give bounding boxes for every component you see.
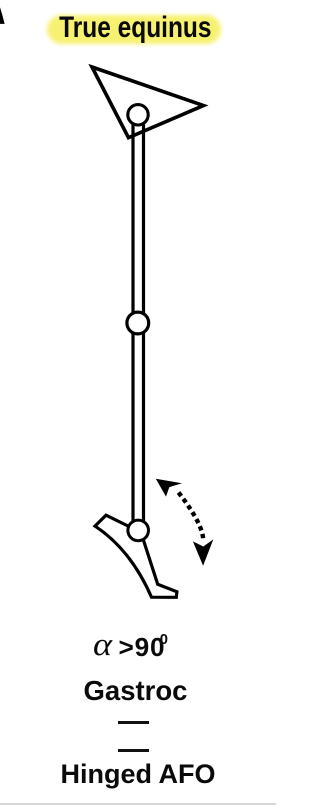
- arrowhead upper-left: [156, 479, 182, 497]
- superscript 0: [160, 633, 168, 648]
- dashed motion arc: [179, 493, 204, 541]
- label alpha: [93, 629, 112, 662]
- bottom hairline: [0, 803, 276, 805]
- arrowhead lower: [193, 539, 213, 565]
- femur bar right line: [142, 114, 145, 530]
- fraction dash 2: [118, 749, 149, 752]
- label Hinged AFO: [0, 759, 276, 790]
- foot outline: [95, 515, 177, 597]
- yellow highlight pill: [47, 15, 221, 44]
- fraction dash 1: [118, 721, 149, 724]
- femur bar left line: [131, 114, 134, 530]
- pelvis triangle: [92, 67, 204, 138]
- title: True equinus: [21, 11, 250, 45]
- hip joint circle: [128, 105, 148, 125]
- label Gastroc: [0, 675, 274, 707]
- ankle joint circle: [128, 520, 149, 541]
- knee joint circle: [127, 312, 149, 334]
- label >90: [119, 634, 166, 660]
- panel label A (cut off at left edge): [0, 7, 5, 24]
